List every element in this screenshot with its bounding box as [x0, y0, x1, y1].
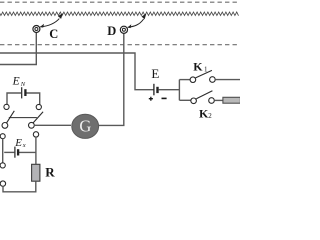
svg-text:E: E — [151, 66, 159, 81]
battery Ex wires — [4, 151, 14, 153]
terminal upper — [0, 163, 5, 168]
switch K1 contact right — [210, 77, 216, 83]
wire: K1 to right edge — [215, 79, 240, 81]
selector blade left — [6, 111, 14, 123]
galvanometer G — [72, 114, 99, 138]
slider D eyelet — [120, 26, 127, 33]
svg-text:D: D — [107, 24, 116, 38]
wire: bottom contact left down to terminal — [2, 139, 4, 163]
resistor box at right edge — [223, 97, 241, 103]
battery E polarity + — [149, 97, 153, 101]
wire: left edge to battery E (top horizontal) — [0, 53, 154, 90]
top dashed boundary line — [0, 1, 240, 3]
svg-text:R: R — [45, 165, 55, 180]
slider C arrow to wire — [40, 19, 59, 27]
battery E plates — [153, 84, 155, 96]
switch K2 contact left — [191, 98, 197, 104]
switch K2 contact right — [209, 98, 215, 104]
slider D arrow to wire — [128, 19, 144, 27]
svg-text:K: K — [193, 59, 203, 73]
svg-text:2: 2 — [208, 112, 212, 120]
selector pole right — [29, 122, 35, 128]
svg-text:E: E — [14, 137, 22, 149]
selector top contact left — [4, 104, 9, 109]
wire: R bottom to lower terminal — [3, 181, 36, 192]
svg-text:C: C — [49, 27, 58, 41]
switch K1 blade — [196, 70, 212, 78]
battery EN wires — [7, 93, 21, 104]
selector top contact right — [36, 104, 41, 109]
selector pole left — [2, 123, 8, 129]
middle dashed boundary line — [0, 44, 240, 46]
battery EN plates — [21, 87, 23, 98]
wire: bottom contact right down to R — [35, 137, 37, 164]
selector bottom contact right — [33, 132, 38, 137]
resistor R — [32, 164, 40, 181]
selector blade right — [33, 112, 43, 123]
svg-text:x: x — [22, 142, 26, 149]
wire: switch split vertical — [178, 80, 180, 101]
battery Ex plates — [14, 147, 16, 158]
terminal lower — [0, 181, 5, 186]
wire: K1 branch left — [179, 79, 190, 81]
slider C eyelet — [33, 26, 40, 33]
selector tie bar — [9, 117, 37, 119]
svg-text:N: N — [20, 81, 26, 88]
resistance wire (zigzag) — [0, 12, 239, 16]
svg-text:1: 1 — [204, 66, 208, 74]
selector bottom contact left — [0, 134, 5, 139]
switch K2 blade — [196, 91, 212, 99]
wire: K2 to resistor box — [214, 99, 223, 101]
wire: slider C down and left to edge — [0, 33, 36, 65]
svg-text:E: E — [12, 75, 20, 87]
wire: right pole to galvanometer — [34, 124, 71, 126]
battery E polarity - — [162, 97, 167, 99]
switch K1 contact left — [190, 77, 196, 83]
wire: K2 branch left — [179, 99, 190, 101]
wire: battery E to switch split — [159, 89, 180, 91]
svg-text:G: G — [79, 116, 91, 135]
wire: slider D down to galvanometer — [99, 33, 124, 125]
